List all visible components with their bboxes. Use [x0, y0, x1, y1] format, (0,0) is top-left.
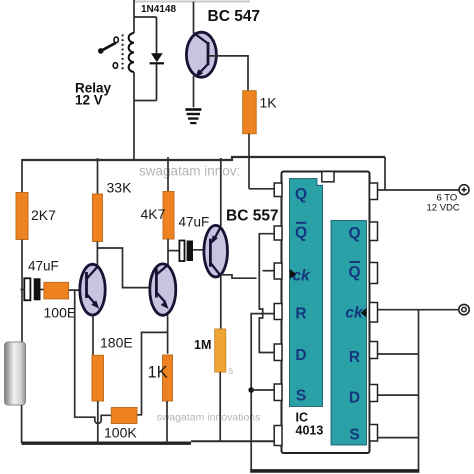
relay switch pivot dot	[98, 48, 104, 54]
svg-text:BC 547: BC 547	[208, 8, 261, 25]
resistor R8 1K	[163, 355, 173, 401]
relay switch lever	[101, 43, 116, 51]
wire 1K bottom to pin1 node	[248, 134, 250, 189]
wire T1 base down to 100K with hop	[75, 290, 112, 423]
svg-text:BC 557: BC 557	[226, 208, 279, 225]
IC pins right	[370, 183, 378, 441]
svg-text:2K7: 2K7	[31, 207, 56, 223]
wire pin1	[249, 188, 276, 190]
svg-text:swagatam innovations: swagatam innovations	[157, 412, 261, 424]
terminal 6-12VDC	[459, 185, 469, 195]
wire ck2 to output terminal	[378, 309, 458, 311]
wire cap C2 to BC557 base	[193, 249, 210, 251]
left rail	[21, 159, 23, 193]
resistor R3 100E	[44, 282, 69, 299]
wire ck1 from BC557 collector to pin3	[221, 275, 257, 278]
FF1 labels	[292, 186, 311, 405]
svg-text:s: s	[228, 365, 234, 377]
svg-text:D: D	[295, 347, 306, 364]
terminal output	[459, 304, 469, 314]
FF2 labels	[345, 225, 364, 444]
svg-text:Q: Q	[348, 264, 360, 281]
svg-text:D: D	[349, 390, 360, 407]
transistor T2	[150, 264, 176, 315]
wire pin6 set	[251, 389, 274, 391]
IC notch	[322, 172, 334, 182]
wire 180E bottom to ground bus	[97, 401, 99, 443]
resistor R9 1M	[215, 329, 226, 372]
diode D1 1N4148	[156, 17, 158, 54]
supply bus	[22, 157, 385, 160]
wire BC557 emitter up to bus	[220, 158, 222, 226]
transistor Q2 BC557	[204, 225, 228, 277]
svg-text:47uF: 47uF	[179, 215, 210, 230]
relay switch contact bottom	[113, 63, 117, 69]
FF2 Qbar overline	[350, 261, 360, 263]
wire pinR6	[378, 394, 419, 396]
IC 4013 body	[282, 172, 370, 454]
wire to positive terminal	[378, 189, 460, 191]
wire pin4 reset to ground rail	[251, 314, 275, 470]
wire pinR5	[378, 353, 419, 355]
wire BC557 collector to 1M	[220, 276, 222, 329]
junction dot	[248, 387, 254, 393]
flip-flop 2 teal block	[331, 221, 367, 446]
transistor T1	[80, 264, 105, 315]
wire T1 collector to T2 base	[97, 248, 156, 288]
wire T1 emitter to 180E	[92, 315, 94, 355]
resistor R6 180E	[92, 355, 104, 401]
svg-text:100K: 100K	[104, 425, 137, 441]
svg-text:R: R	[295, 306, 306, 323]
FF1 Qbar overline	[296, 222, 306, 224]
wire cap to 100E	[41, 289, 45, 291]
bottom bus right	[250, 469, 419, 473]
transistor Q1 BC547	[186, 32, 216, 77]
wire coil bottom down to bus	[133, 72, 135, 159]
svg-text:Q: Q	[295, 225, 307, 242]
wire 100E to T1 base	[69, 289, 87, 291]
relay switch contact top	[114, 37, 118, 43]
wire diode top	[134, 16, 157, 18]
wire T2 emitter to 1K	[167, 315, 169, 353]
IC pins left	[274, 183, 282, 446]
svg-text:S: S	[349, 427, 359, 444]
flip-flop 1 teal block	[290, 179, 323, 407]
svg-text:1N4148: 1N4148	[141, 4, 176, 15]
svg-text:ck: ck	[292, 268, 311, 285]
svg-text:180E: 180E	[100, 335, 133, 351]
wire pinR7	[378, 437, 419, 439]
label box 1N4148 gray top border	[134, 1, 250, 3]
wire pin2 to pin5 (Qbar to D)	[259, 234, 275, 353]
svg-text:1K: 1K	[148, 364, 168, 382]
FF1 clock arrow	[290, 269, 296, 279]
relay coil	[129, 33, 134, 72]
wire 1M bottom to ground bus	[219, 372, 221, 441]
wire right pins ground rail	[418, 310, 420, 471]
ground bus left	[22, 442, 192, 445]
svg-text:12 V: 12 V	[75, 93, 103, 108]
resistor R7 4K7	[167, 157, 169, 192]
wire rail to cap	[21, 289, 26, 291]
wire diode bottom	[134, 100, 157, 102]
resistor R2 2K7	[16, 193, 28, 240]
wire mic to ground bus	[21, 405, 23, 443]
svg-text:swagatam innov:: swagatam innov:	[139, 164, 240, 179]
resistor R1 1K	[243, 91, 257, 134]
wire BC547 base to 1K	[209, 56, 248, 91]
svg-text:IC: IC	[296, 411, 309, 425]
ground	[185, 108, 201, 124]
resistor R5 33K	[97, 158, 99, 194]
wire supply drop right	[384, 157, 386, 190]
wire rail to mic	[21, 240, 23, 343]
wire relay coil top	[133, 0, 135, 33]
svg-text:Q: Q	[295, 186, 307, 203]
wire 1K bottom to ground bus	[166, 401, 168, 443]
svg-text:Q: Q	[348, 225, 360, 242]
resistor R4 100K	[111, 408, 137, 424]
svg-text:4013: 4013	[296, 424, 324, 438]
svg-text:100E: 100E	[44, 305, 77, 321]
svg-text:12 VDC: 12 VDC	[427, 203, 460, 214]
svg-text:1K: 1K	[260, 95, 278, 111]
wire BC547 collector	[193, 2, 195, 34]
wire 100K right up to T2 emitter branch	[137, 332, 167, 414]
svg-text:47uF: 47uF	[28, 259, 59, 274]
wire 33K to T1 collector	[96, 242, 98, 268]
FF2 clock arrow	[361, 308, 367, 318]
svg-text:S: S	[296, 388, 306, 405]
svg-text:33K: 33K	[107, 180, 133, 196]
relay coil dotted core	[122, 35, 124, 71]
wire 4K7 node to cap C2	[168, 250, 179, 252]
svg-text:R: R	[349, 349, 360, 366]
svg-text:1M: 1M	[194, 338, 211, 352]
wire BC547 emitter	[193, 76, 195, 107]
wire 4K7 to T2 collector	[167, 239, 169, 265]
svg-text:4K7: 4K7	[141, 206, 166, 222]
